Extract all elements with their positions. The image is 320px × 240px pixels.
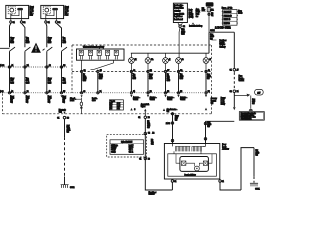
svg-text:Sig 8: Sig 8 — [129, 149, 133, 151]
boundary pin at x=97.8 — [97, 92, 99, 94]
svg-text:C3 Tan: C3 Tan — [111, 149, 116, 151]
svg-text:0.35: 0.35 — [63, 82, 66, 84]
inline connector below legend — [144, 157, 146, 159]
feed runs right — [209, 31, 234, 33]
svg-text:Door: Door — [221, 100, 225, 102]
wire from S2 pin B down — [56, 23, 61, 47]
svg-text:E1: E1 — [133, 91, 135, 93]
svg-text:G301: G301 — [255, 188, 259, 190]
door lock actuator box — [164, 144, 219, 180]
switch blades (jog diagonals) — [0, 47, 67, 51]
svg-text:21 C8: 21 C8 — [166, 123, 170, 125]
indicator lamp at x=148 — [145, 58, 151, 64]
svg-text:0.35: 0.35 — [83, 80, 86, 82]
boundary pin at x=178.5 — [177, 92, 179, 94]
svg-text:0.8: 0.8 — [252, 103, 254, 105]
feed end arrow — [233, 107, 236, 110]
svg-text:0.5: 0.5 — [207, 78, 209, 80]
svg-text:E3: E3 — [167, 91, 169, 93]
svg-text:ance: ance — [92, 100, 96, 102]
svg-text:E2: E2 — [150, 91, 152, 93]
svg-text:0.35: 0.35 — [48, 82, 51, 84]
svg-text:0.8: 0.8 — [67, 132, 69, 134]
svg-text:Fuses – IP Blk: Fuses – IP Blk — [222, 8, 232, 10]
svg-text:0.35: 0.35 — [167, 80, 170, 82]
boundary pin at x=9.5 — [8, 92, 10, 94]
svg-text:1050: 1050 — [256, 152, 260, 154]
svg-text:0.35: 0.35 — [26, 42, 29, 44]
svg-text:0.8: 0.8 — [256, 154, 258, 156]
svg-text:Door: Door — [26, 96, 30, 98]
boundary pin at x=206 — [205, 92, 207, 94]
svg-text:0.35: 0.35 — [10, 42, 13, 44]
connector pins C1 C2 of S1 — [11, 19, 22, 21]
svg-text:Window: Window — [220, 44, 226, 46]
pin at x=206 on module row — [205, 70, 207, 72]
svg-text:Gnd 1: Gnd 1 — [129, 151, 133, 153]
svg-text:C1: C1 — [139, 158, 141, 160]
boundary pin at x=81.6 — [81, 92, 83, 94]
actuator contact combs — [175, 146, 190, 151]
svg-text:Lock &: Lock & — [220, 42, 225, 44]
push button switch at x=90.5 — [88, 50, 92, 55]
svg-text:0.8: 0.8 — [147, 127, 149, 129]
svg-text:Lock 5: Lock 5 — [129, 145, 134, 147]
svg-text:Block: Block — [238, 12, 242, 14]
svg-text:Gnd: Gnd — [59, 112, 62, 114]
svg-text:B4: B4 — [63, 65, 65, 67]
svg-text:C1: C1 — [211, 15, 213, 17]
branch to splice S217 — [234, 95, 247, 97]
svg-text:Unlk: Unlk — [63, 98, 66, 100]
svg-text:Sig: Sig — [48, 102, 50, 104]
BCM box — [173, 3, 187, 22]
splice arrows under row — [61, 95, 83, 97]
svg-text:0.8: 0.8 — [175, 120, 177, 122]
dashed boundary left section — [3, 94, 212, 114]
svg-text:C2: C2 — [58, 22, 60, 24]
pin at x=131.4 on module row — [130, 70, 132, 72]
HOT AT ALL TIMES banner — [206, 2, 214, 6]
svg-text:B8: B8 — [180, 70, 182, 72]
svg-text:C2: C2 — [230, 91, 232, 93]
svg-text:Dk: Dk — [151, 139, 153, 141]
wire to relay legend box — [250, 96, 252, 109]
svg-text:C1 Dk Grn: C1 Dk Grn — [111, 145, 118, 147]
svg-text:1.2k: 1.2k — [117, 103, 120, 105]
connector row at module boundary (dotted) — [0, 92, 212, 94]
connector pins C1 C2 of S2 — [46, 19, 57, 21]
wire to actuator (bottom route) — [144, 116, 147, 119]
svg-text:k at nt bsd rr lt ap: k at nt bsd rr lt ap — [189, 25, 202, 28]
in-line connector row C2 (dotted) — [0, 66, 68, 68]
svg-text:Sig: Sig — [211, 102, 213, 104]
wire from S1 pin B down — [21, 23, 25, 47]
boundary pin at x=24.9 — [24, 92, 26, 94]
warning triangle — [31, 43, 41, 53]
svg-text:Pass: Pass — [65, 14, 69, 16]
inline connector on actuator wire — [144, 132, 146, 134]
boundary pin at x=131.4 — [130, 92, 132, 94]
svg-text:1 C2: 1 C2 — [0, 91, 3, 93]
wires through module row — [82, 73, 206, 93]
feed resumes to actuator right input — [206, 121, 235, 143]
svg-text:C2: C2 — [23, 22, 25, 24]
lamp riser x=206 — [205, 53, 207, 58]
indicator lamp at x=131.4 — [129, 58, 135, 64]
door lock switch S1 (driver) box — [6, 5, 29, 23]
svg-text:C1: C1 — [174, 181, 176, 183]
indicator lamp at x=165.5 — [163, 58, 169, 64]
svg-text:Window A/C Aux Acc´y Dely: Window A/C Aux Acc´y Dely — [83, 46, 104, 49]
svg-text:C2 Gray: C2 Gray — [111, 147, 116, 149]
actuator inner frame — [168, 154, 217, 176]
svg-text:(BCM): (BCM) — [189, 17, 194, 19]
svg-text:D1: D1 — [100, 91, 102, 93]
svg-text:Door: Door — [48, 96, 52, 98]
svg-text:Lock: Lock — [48, 98, 52, 100]
svg-text:Lck: Lck — [110, 103, 112, 105]
svg-text:11 C2: 11 C2 — [0, 65, 4, 67]
svg-text:2 BOD 8W2: 2 BOD 8W2 — [215, 25, 231, 29]
svg-text:Signal: Signal — [141, 106, 146, 108]
svg-text:DR LCK 15: DR LCK 15 — [224, 11, 232, 13]
svg-text:B3: B3 — [148, 117, 150, 119]
svg-text:S: S — [134, 109, 135, 111]
splice arrow at x=165.5 — [164, 95, 166, 98]
svg-text:C5: C5 — [100, 70, 102, 72]
svg-text:C1: C1 — [138, 117, 140, 119]
svg-text:Lock: Lock — [221, 102, 225, 104]
wire from S1 pin A down — [10, 23, 11, 47]
switch blade inside module — [82, 60, 114, 71]
push button switch at x=107.6 — [106, 50, 110, 55]
svg-text:0.35: 0.35 — [133, 78, 136, 80]
svg-text:Relay: Relay — [221, 104, 225, 106]
wire BCM down — [179, 27, 180, 57]
ground route right to G301 — [220, 148, 254, 190]
svg-text:Door: Door — [10, 96, 14, 98]
svg-text:Unlk: Unlk — [26, 98, 29, 100]
svg-text:Modul: Modul — [189, 14, 194, 16]
svg-text:10k: 10k — [117, 108, 120, 110]
svg-text:694: 694 — [151, 144, 154, 146]
svg-text:Sig: Sig — [10, 102, 12, 104]
fuse symbol — [208, 6, 210, 7]
svg-text:C2: C2 — [84, 70, 86, 72]
indicator lamp at x=206 — [203, 58, 209, 64]
motor M — [195, 166, 200, 171]
BCM connector tab — [178, 23, 183, 25]
svg-text:0.35: 0.35 — [26, 82, 29, 84]
legend / relay box — [239, 112, 264, 121]
boundary pin at x=148 — [147, 92, 149, 94]
fuse block detail box — [223, 10, 237, 26]
boundary pin at x=165.5 — [164, 92, 166, 94]
lamp riser x=131.4 — [130, 53, 132, 58]
svg-text:Fuse: Fuse — [239, 76, 243, 78]
svg-text:Lk: Lk — [135, 59, 137, 61]
svg-text:C1: C1 — [57, 117, 59, 119]
connector pin at x=24.9 row 1 — [24, 66, 26, 68]
boundary pin at x=46.8 — [46, 92, 48, 94]
connector pin at x=46.8 row 1 — [46, 66, 48, 68]
svg-text:0.35: 0.35 — [180, 78, 183, 80]
module box label right of dashed edge — [212, 39, 217, 41]
svg-text:Harness: Harness — [149, 194, 155, 196]
svg-text:Unlk 6: Unlk 6 — [129, 147, 134, 149]
splice arrow at x=131.4 — [130, 95, 132, 98]
pin at x=165.5 on module row — [164, 70, 166, 72]
lamp riser x=148 — [147, 53, 149, 58]
svg-text:Drvr: Drvr — [30, 13, 34, 16]
lamp riser x=165.5 — [165, 53, 167, 58]
window switch assembly box — [77, 49, 125, 60]
svg-text:C1: C1 — [48, 22, 50, 24]
svg-text:340: 340 — [252, 101, 255, 103]
svg-text:G302: G302 — [70, 187, 74, 189]
ground symbol G302 — [61, 185, 69, 188]
connector pinout legend (dashed box) — [107, 135, 147, 157]
svg-text:B6: B6 — [150, 70, 152, 72]
actuator bottom pins — [172, 178, 220, 181]
svg-text:Sig: Sig — [63, 102, 65, 104]
indicator feed bus — [131, 32, 209, 53]
svg-text:Un: Un — [151, 59, 153, 61]
svg-text:C1: C1 — [222, 181, 224, 183]
svg-text:Body: Body — [189, 9, 193, 11]
svg-text:Actuator: Actuator — [222, 148, 229, 151]
svg-text:E4: E4 — [180, 91, 182, 93]
svg-text:Block –: Block – — [239, 78, 244, 80]
blade arrow tick — [43, 49, 45, 51]
svg-text:0.8: 0.8 — [207, 126, 209, 128]
svg-text:Sig: Sig — [26, 102, 28, 104]
svg-text:C1: C1 — [13, 22, 15, 24]
svg-text:C2: C2 — [183, 26, 185, 28]
svg-text:0.35: 0.35 — [99, 78, 102, 80]
svg-text:C1 34: C1 34 — [210, 30, 214, 32]
svg-text:C3: C3 — [83, 91, 85, 93]
connector pin at x=61.5 row 1 — [60, 66, 62, 68]
svg-text:Lamps Module: Lamps Module — [174, 13, 184, 15]
svg-text:Blk: Blk — [256, 150, 258, 152]
svg-text:B5: B5 — [63, 91, 65, 93]
svg-text:Fuse: Fuse — [238, 10, 242, 12]
push button switch at x=99.2 — [97, 50, 101, 55]
svg-text:B1: B1 — [237, 91, 239, 93]
wires continue down — [10, 51, 62, 93]
svg-text:2.4k: 2.4k — [117, 106, 120, 108]
dashed module boundary (driver door module) — [72, 45, 212, 114]
splice arrow at x=148 — [147, 95, 149, 98]
door lock switch S2 (passenger) box — [41, 5, 64, 23]
pin at x=81.6 on module row — [81, 70, 83, 72]
wire from S2 pin A down — [46, 23, 47, 47]
svg-text:C2: C2 — [148, 132, 150, 134]
svg-text:Door: Door — [63, 96, 67, 98]
svg-text:B4: B4 — [211, 13, 213, 15]
push button switch at x=81.3 — [79, 50, 83, 55]
svg-text:B2: B2 — [27, 91, 29, 93]
svg-text:0.35: 0.35 — [63, 42, 66, 44]
wire to actuator left input — [172, 112, 174, 143]
svg-text:Lock: Lock — [10, 98, 14, 100]
feed wire down right side — [233, 32, 235, 68]
svg-text:Power: Power — [221, 97, 226, 99]
connector table box — [109, 100, 123, 110]
svg-text:E5: E5 — [208, 91, 210, 93]
svg-text:0.35: 0.35 — [48, 42, 51, 44]
svg-text:0.35: 0.35 — [149, 78, 152, 80]
splice arrow at x=178.5 — [177, 95, 179, 98]
pin at x=97.8 on module row — [97, 70, 99, 72]
boundary pin at x=61.5 — [60, 92, 62, 94]
svg-text:217: 217 — [257, 92, 260, 94]
svg-text:B8: B8 — [67, 117, 69, 119]
svg-text:C4 Blk: C4 Blk — [111, 151, 115, 153]
svg-text:C1: C1 — [230, 70, 232, 72]
svg-text:Lockd: Lockd — [70, 100, 74, 102]
connector pin at x=9.5 row 1 — [8, 66, 10, 68]
ground symbol G301 — [250, 183, 258, 186]
indicator lamp at x=178.5 — [176, 58, 182, 64]
svg-text:B3: B3 — [148, 158, 150, 160]
pin at x=178.5 on module row — [177, 70, 179, 72]
svg-text:0.35: 0.35 — [181, 33, 184, 35]
svg-text:DM LP 10: DM LP 10 — [224, 19, 231, 21]
internal links — [176, 154, 212, 167]
push button switch at x=116.3 — [114, 50, 118, 55]
svg-text:B7: B7 — [167, 70, 169, 72]
motor brushes — [181, 161, 186, 165]
pin at x=148 on module row — [147, 70, 149, 72]
svg-text:Closed: Closed — [70, 98, 75, 100]
svg-text:0.35: 0.35 — [10, 82, 13, 84]
svg-text:1840: 1840 — [210, 36, 214, 38]
svg-text:B1: B1 — [27, 65, 29, 67]
svg-text:Org: Org — [252, 99, 255, 101]
